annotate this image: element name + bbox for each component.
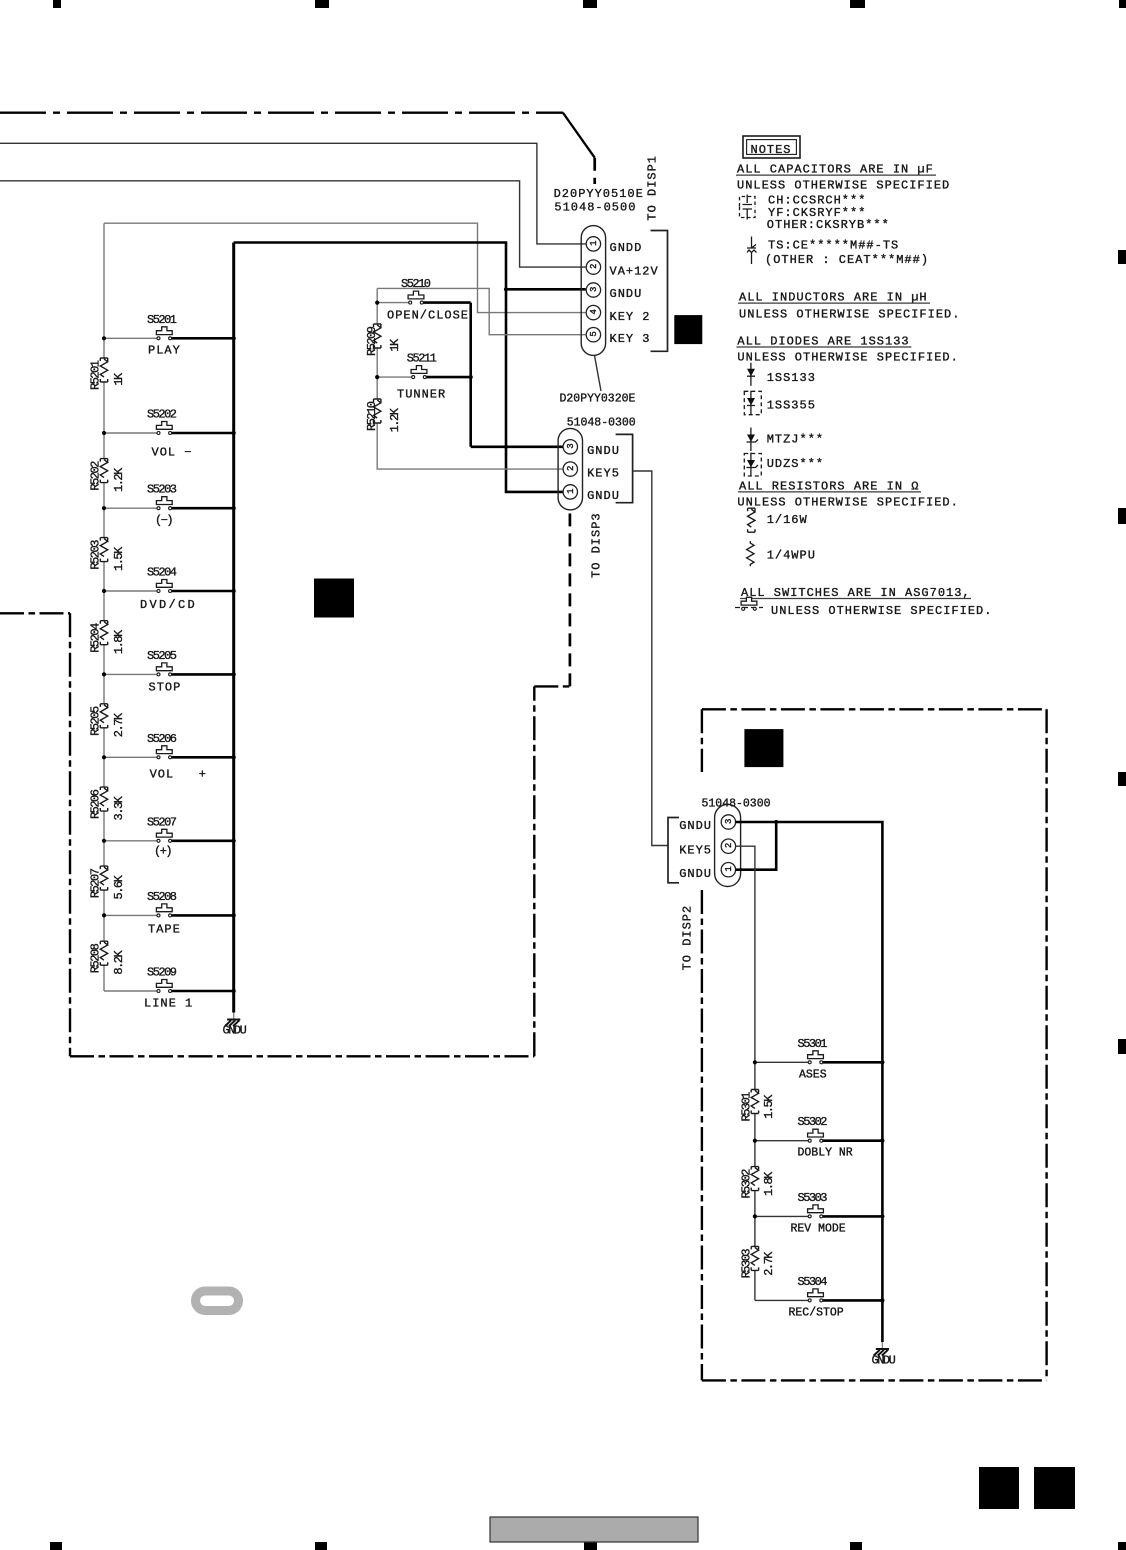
connector D20PYY0510E 51048-0500 (554, 187, 644, 355)
bracket DISP2 (668, 818, 679, 883)
wire KEY5 to DISP2 block (633, 471, 668, 846)
svg-text:ALL INDUCTORS ARE IN µH: ALL INDUCTORS ARE IN µH (739, 291, 928, 305)
svg-text:3.3K: 3.3K (112, 795, 126, 820)
svg-text:ASES: ASES (799, 1068, 827, 1081)
wire switch row S5201 (104, 337, 157, 339)
svg-text:D20PYY0510E: D20PYY0510E (554, 187, 644, 201)
svg-text:UDZS***: UDZS*** (767, 457, 824, 471)
svg-text:S5303: S5303 (798, 1191, 828, 1205)
wire S5210 top to DISP1 pin 5 (KEY 3) (377, 288, 585, 334)
wire S5211 row (377, 376, 412, 378)
bracket DISP3 (616, 434, 633, 502)
node rail row S5301 (753, 1060, 757, 1064)
svg-text:GNDU: GNDU (679, 819, 712, 833)
node S5210 rail (375, 301, 379, 305)
svg-text:TO DISP1: TO DISP1 (646, 155, 660, 221)
gray bar footer (490, 1517, 698, 1542)
svg-text:TUNNER: TUNNER (397, 388, 446, 402)
switch S5211 TUNNER (397, 351, 446, 401)
switch S5210 OPEN/CLOSE (387, 277, 469, 322)
node bus row S5304 (880, 1298, 884, 1302)
svg-text:VA+12V: VA+12V (610, 264, 659, 278)
dash-dot boundary top (0, 113, 595, 184)
wire DISP2 pin1 jumper (736, 822, 777, 870)
svg-text:OTHER:CKSRYB***: OTHER:CKSRYB*** (767, 218, 890, 232)
svg-text:S5204: S5204 (147, 566, 177, 580)
svg-text:TAPE: TAPE (148, 923, 181, 937)
node rail row 6 (102, 755, 106, 759)
resistor R5302 1.8K (740, 1167, 776, 1199)
resistor R5208 8.2K (88, 941, 126, 974)
switch S5205 STOP (147, 649, 181, 695)
wire KEY2 net: left keyboard rail to DISP1 pin 4 (104, 223, 586, 312)
svg-text:GNDU: GNDU (872, 1353, 896, 1367)
svg-text:R5201: R5201 (88, 360, 102, 390)
node marker square C (DISP2) (744, 729, 783, 767)
switch S5208 TAPE (147, 890, 181, 937)
svg-text:S5201: S5201 (147, 313, 177, 327)
node bus row 4 (232, 589, 236, 593)
resistor R5207 5.6K (88, 866, 126, 899)
svg-text:S5209: S5209 (147, 966, 177, 980)
svg-text:DVD/CD: DVD/CD (140, 598, 197, 612)
resistor R5204 1.8K (88, 621, 126, 654)
svg-text:S5205: S5205 (147, 649, 177, 663)
node rail row 7 (102, 839, 106, 843)
wire switch row S5304 (755, 1299, 808, 1301)
node bus row 2 (232, 431, 236, 435)
svg-text:R5302: R5302 (740, 1169, 754, 1199)
svg-text:MTZJ***: MTZJ*** (767, 432, 824, 446)
symbol capacitor CH/YF (740, 195, 756, 220)
connector 51048-0300 TO DISP2 (702, 797, 771, 886)
svg-text:REV MODE: REV MODE (791, 1222, 846, 1235)
svg-text:VOL +: VOL + (150, 768, 207, 782)
svg-text:R5301: R5301 (740, 1092, 754, 1122)
node bus row 6 (232, 755, 236, 759)
symbol diode 1SS133 (747, 363, 755, 386)
switch S5203 (−) (147, 483, 177, 528)
svg-text:1K: 1K (388, 338, 402, 352)
svg-text:S5208: S5208 (147, 890, 177, 904)
pin 1 GNDU DISP3 (563, 485, 620, 503)
svg-text:ALL SWITCHES ARE IN ASG7013,: ALL SWITCHES ARE IN ASG7013, (741, 586, 971, 600)
svg-text:2.7K: 2.7K (762, 1251, 776, 1276)
symbol resistor 1/4WPU (747, 541, 754, 566)
wire left keyboard KEY2 rail (103, 223, 105, 991)
node bus row 3 (232, 506, 236, 510)
svg-text:R5209: R5209 (365, 326, 379, 356)
node bus row 9 (232, 989, 236, 993)
svg-text:S5304: S5304 (798, 1275, 828, 1289)
svg-text:VOL −: VOL − (152, 446, 193, 460)
node bus row 8 (232, 913, 236, 917)
switch S5302 DOBLY NR (798, 1115, 853, 1160)
node S5211 vertical (469, 375, 473, 379)
switch S5303 REV MODE (791, 1191, 846, 1236)
svg-text:R5204: R5204 (88, 623, 102, 653)
svg-text:R5206: R5206 (88, 789, 102, 819)
resistor R5205 2.7K (88, 704, 126, 737)
svg-text:(−): (−) (155, 514, 172, 528)
svg-text:S5210: S5210 (401, 277, 431, 291)
node S5211 rail (375, 375, 379, 379)
svg-text:1/4WPU: 1/4WPU (767, 548, 816, 562)
switch S5202 VOL − (147, 408, 193, 460)
wire switch row S5203 (104, 507, 157, 509)
svg-text:UNLESS OTHERWISE SPECIFIED.: UNLESS OTHERWISE SPECIFIED. (737, 495, 958, 509)
wire switch row S5301 (755, 1061, 808, 1063)
svg-text:2.7K: 2.7K (112, 712, 126, 737)
note resistors header (738, 479, 921, 493)
svg-text:51048-0300: 51048-0300 (567, 417, 636, 430)
svg-text:GNDU: GNDU (587, 444, 620, 458)
node bus row S5301 (880, 1060, 884, 1064)
note inductors header (738, 291, 930, 305)
wire left keyboard GNDU bus (232, 243, 235, 1013)
svg-text:TO DISP3: TO DISP3 (590, 512, 604, 578)
node bus row 1 (232, 336, 236, 340)
node rail row S5303 (753, 1214, 757, 1218)
wire middle rail KEY3/KEY5 (377, 288, 563, 469)
note capacitors header (736, 163, 936, 177)
wire switch row S5206 (104, 756, 157, 758)
svg-text:S5302: S5302 (798, 1115, 828, 1129)
pin 5 KEY 3 DISP1 (586, 328, 650, 346)
switch S5207 (+) (147, 815, 177, 858)
svg-text:KEY 2: KEY 2 (610, 310, 651, 324)
dash-dot boundary left keyboard block (0, 514, 570, 1057)
svg-text:51048-0500: 51048-0500 (554, 200, 636, 214)
switch S5201 PLAY (147, 313, 181, 358)
svg-text:1.5K: 1.5K (762, 1094, 776, 1119)
node rail row 2 (102, 431, 106, 435)
svg-text:R5303: R5303 (740, 1249, 754, 1279)
svg-text:1SS133: 1SS133 (767, 371, 816, 385)
pin 2 KEY5 DISP2 (679, 839, 735, 857)
node rail row 4 (102, 589, 106, 593)
pin 1 GNDD DISP1 (586, 237, 642, 255)
svg-text:R5210: R5210 (365, 401, 379, 431)
svg-text:STOP: STOP (149, 681, 182, 695)
junction GNDU/pin3 DISP3 (504, 445, 508, 449)
junction GNDU/pin3 (504, 287, 508, 291)
svg-text:GNDU: GNDU (587, 489, 620, 503)
pin 3 GNDU DISP1 (586, 283, 642, 301)
svg-text:DOBLY NR: DOBLY NR (798, 1147, 853, 1160)
svg-text:UNLESS OTHERWISE SPECIFIED.: UNLESS OTHERWISE SPECIFIED. (739, 307, 960, 321)
pin 4 KEY 2 DISP1 (586, 305, 650, 323)
node rail row 5 (102, 672, 106, 676)
symbol switch note (735, 597, 763, 610)
svg-text:5.6K: 5.6K (112, 874, 126, 899)
switch S5204 DVD/CD (140, 566, 197, 613)
wire S5211 right vertical to GNDU (469, 303, 472, 447)
resistor R5202 1.2K (88, 459, 126, 492)
switch S5209 LINE 1 (144, 966, 193, 1011)
junction DISP2 GNDU (774, 820, 778, 824)
svg-text:TO DISP2: TO DISP2 (681, 905, 695, 971)
svg-text:LINE 1: LINE 1 (144, 997, 193, 1011)
node bus row 5 (232, 672, 236, 676)
wire GNDU bus: left keyboard bus to DISP1 pin 3 and TO DISP3 pins (234, 243, 563, 492)
note switches header (740, 586, 971, 600)
wire VA+12V net to DISP1 pin 2 (0, 181, 586, 267)
pin 2 VA+12V DISP1 (586, 260, 659, 278)
symbol diode 1SS355 (744, 391, 761, 415)
ground GNDU left block (223, 1013, 247, 1038)
node rail row 1 (102, 336, 106, 340)
wire switch row S5204 (104, 590, 157, 592)
node marker square B (DISP1) (674, 315, 702, 344)
svg-text:UNLESS OTHERWISE SPECIFIED.: UNLESS OTHERWISE SPECIFIED. (737, 351, 958, 365)
bracket DISP1 (651, 231, 668, 352)
node rail row 3 (102, 506, 106, 510)
svg-text:S5207: S5207 (147, 815, 177, 829)
wire switch row S5209 (104, 990, 157, 992)
node rail row 8 (102, 913, 106, 917)
svg-text:PLAY: PLAY (148, 343, 181, 357)
svg-text:S5206: S5206 (147, 732, 177, 746)
svg-text:UNLESS OTHERWISE SPECIFIED.: UNLESS OTHERWISE SPECIFIED. (771, 604, 992, 618)
svg-text:(+): (+) (154, 844, 171, 858)
symbol zener UDZS (744, 453, 761, 477)
resistor R5209 1K (365, 324, 402, 356)
svg-text:1.2K: 1.2K (388, 407, 402, 432)
svg-text:1.2K: 1.2K (112, 467, 126, 492)
svg-text:R5208: R5208 (88, 943, 102, 973)
notes box NOTES (743, 136, 800, 158)
svg-text:OPEN/CLOSE: OPEN/CLOSE (387, 308, 469, 322)
resistor R5206 3.3K (88, 787, 126, 820)
node marker square E (bottom right) (1034, 1467, 1075, 1509)
svg-text:GNDU: GNDU (679, 867, 712, 881)
svg-text:S5211: S5211 (407, 351, 437, 365)
resistor R5303 2.7K (740, 1246, 776, 1278)
svg-text:S5202: S5202 (147, 408, 177, 422)
svg-text:R5202: R5202 (88, 461, 102, 491)
svg-text:GNDD: GNDD (610, 241, 643, 255)
node rail row S5302 (753, 1139, 757, 1143)
svg-text:R5207: R5207 (88, 868, 102, 898)
svg-text:8.2K: 8.2K (112, 949, 126, 974)
pin 3 GNDU DISP3 (563, 440, 620, 458)
symbol capacitor TS (747, 237, 757, 265)
node marker square D (bottom right) (979, 1467, 1019, 1509)
svg-text:REC/STOP: REC/STOP (789, 1306, 844, 1319)
svg-text:ALL DIODES ARE 1SS133: ALL DIODES ARE 1SS133 (737, 334, 909, 348)
node marker square A (left block) (314, 579, 354, 618)
wire switch row S5302 (755, 1140, 808, 1142)
svg-text:R5203: R5203 (88, 540, 102, 570)
svg-text:1.8K: 1.8K (112, 629, 126, 654)
ground GNDU DISP2 block (872, 1342, 896, 1367)
wire switch row S5202 (104, 432, 157, 434)
connector 51048-0300 TO DISP3 (558, 417, 636, 510)
svg-text:KEY 3: KEY 3 (610, 332, 651, 346)
note diodes header (736, 334, 911, 348)
resistor R5301 1.5K (740, 1090, 776, 1122)
svg-text:S5203: S5203 (147, 483, 177, 497)
gray capsule mark (196, 1291, 239, 1311)
switch S5304 REC/STOP (789, 1275, 844, 1320)
wire DISP2 KEY5 rail (736, 846, 755, 1300)
resistor R5210 1.2K (365, 399, 402, 432)
wire connector tail D20PYY0320E (595, 356, 602, 392)
dash-dot boundary DISP2 keyboard block (702, 709, 1047, 1380)
svg-text:1.5K: 1.5K (112, 546, 126, 571)
svg-text:1/16W: 1/16W (767, 513, 808, 527)
svg-text:UNLESS OTHERWISE SPECIFIED: UNLESS OTHERWISE SPECIFIED (737, 179, 950, 193)
wire DISP2 GNDU bus (736, 822, 883, 1342)
wire GNDD net to DISP1 pin 1 (0, 143, 586, 244)
svg-text:TS:CE*****M##-TS: TS:CE*****M##-TS (768, 239, 899, 253)
svg-text:GNDU: GNDU (223, 1024, 247, 1038)
svg-text:ALL CAPACITORS ARE IN µF: ALL CAPACITORS ARE IN µF (737, 163, 934, 177)
resistor R5203 1.5K (88, 538, 126, 571)
svg-text:R5205: R5205 (88, 706, 102, 736)
svg-text:ALL RESISTORS ARE IN Ω: ALL RESISTORS ARE IN Ω (739, 479, 919, 493)
wire S5210 row (377, 302, 409, 304)
svg-text:1SS355: 1SS355 (767, 398, 816, 412)
symbol resistor 1/16W (747, 508, 755, 532)
pin 1 GNDU DISP2 (679, 863, 735, 881)
pin 3 GNDU DISP2 (679, 815, 735, 833)
wire switch row S5205 (104, 673, 157, 675)
svg-text:GNDU: GNDU (610, 287, 643, 301)
node bus row S5302 (880, 1139, 884, 1143)
node bus row 7 (232, 839, 236, 843)
pin 2 KEY5 DISP3 (563, 462, 620, 480)
svg-text:(OTHER : CEAT***M##): (OTHER : CEAT***M##) (765, 253, 929, 267)
wire switch row S5207 (104, 840, 157, 842)
svg-text:1K: 1K (112, 372, 126, 386)
svg-text:KEY5: KEY5 (679, 843, 712, 857)
resistor R5201 1K (88, 358, 126, 390)
svg-text:1.8K: 1.8K (762, 1171, 776, 1196)
svg-text:S5301: S5301 (798, 1037, 828, 1051)
wire switch row S5303 (755, 1215, 808, 1217)
wire switch row S5208 (104, 914, 157, 916)
switch S5206 VOL + (147, 732, 207, 782)
node bus row S5303 (880, 1214, 884, 1218)
symbol zener MTZJ (747, 428, 759, 452)
svg-text:D20PYY0320E: D20PYY0320E (560, 393, 636, 406)
switch S5301 ASES (798, 1037, 828, 1082)
svg-text:NOTES: NOTES (751, 143, 792, 157)
svg-text:KEY5: KEY5 (587, 466, 620, 480)
